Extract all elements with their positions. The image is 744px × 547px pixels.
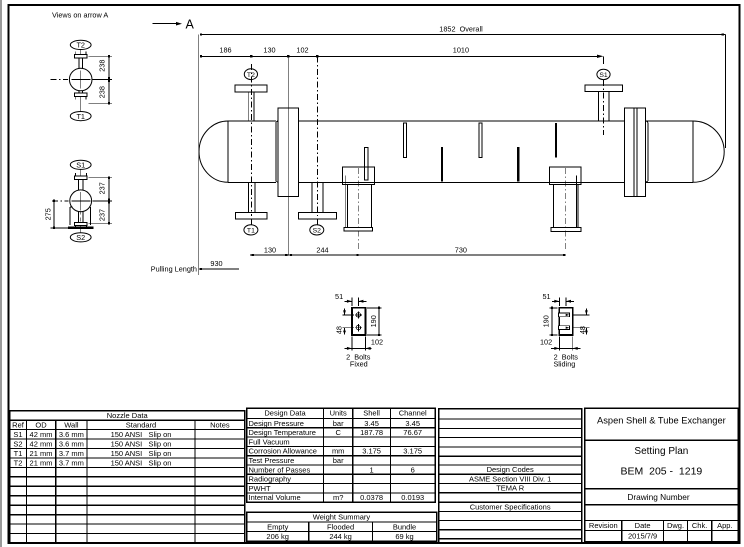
table: Nozzle Data (10, 411, 245, 543)
svg-text:T2: T2 (14, 458, 23, 467)
svg-text:S2: S2 (76, 233, 85, 242)
end view S: horizontal centerline (52, 200, 69, 202)
end view T: T2 flange (75, 50, 87, 58)
svg-text:Full Vacuum: Full Vacuum (249, 437, 290, 446)
svg-text:150 ANSI Slip on: 150 ANSI Slip on (111, 458, 172, 467)
extension line right (overall) (724, 35, 726, 149)
svg-text:Test Pressure: Test Pressure (249, 456, 295, 465)
svg-text:244: 244 (316, 245, 328, 254)
svg-text:190: 190 (541, 315, 550, 327)
saddle right (549, 167, 581, 231)
end view T: center cross (72, 79, 91, 81)
svg-text:Units: Units (330, 408, 347, 417)
svg-text:48: 48 (578, 326, 587, 334)
svg-text:150 ANSI Slip on: 150 ANSI Slip on (111, 449, 172, 458)
svg-text:730: 730 (455, 245, 467, 254)
svg-text:3.175: 3.175 (403, 447, 422, 456)
svg-text:237: 237 (97, 209, 106, 221)
svg-text:51: 51 (335, 292, 343, 301)
nozzle T1 (235, 182, 267, 225)
svg-text:Corrosion Allowance: Corrosion Allowance (249, 447, 317, 456)
nozzle S1 (585, 85, 622, 121)
dimension chain 186 / 130 / 102 / 1010 (200, 45, 604, 58)
nozzle S1 centerline (603, 56, 605, 64)
end view S: dimension 275 (44, 200, 68, 229)
end view S: S2 flange (74, 223, 87, 228)
sliding dim 51 (542, 292, 573, 306)
svg-text:130: 130 (264, 245, 276, 254)
svg-text:1: 1 (370, 465, 374, 474)
nozzle S1 label (597, 69, 610, 79)
left head (199, 121, 228, 182)
view arrow A (153, 18, 195, 32)
sliding dim 190 (541, 307, 557, 336)
svg-text:0.0193: 0.0193 (401, 493, 424, 502)
svg-text:Number of Passes: Number of Passes (249, 465, 311, 474)
svg-text:238: 238 (97, 86, 106, 98)
svg-text:Weight Summary: Weight Summary (313, 513, 371, 522)
svg-text:Design Codes: Design Codes (487, 465, 534, 474)
baffle 6 (top, solid) (555, 123, 557, 158)
title block (585, 408, 738, 541)
svg-text:Channel: Channel (399, 408, 427, 417)
svg-text:150 ANSI Slip on: 150 ANSI Slip on (111, 439, 172, 448)
left screen-edge gray strip (0, 0, 2, 547)
svg-text:Empty: Empty (267, 522, 289, 531)
end view T: label T2 (70, 40, 91, 49)
svg-text:3.7 mm: 3.7 mm (59, 449, 84, 458)
svg-text:Bundle: Bundle (393, 522, 416, 531)
svg-text:Design Temperature: Design Temperature (249, 428, 316, 437)
shell bottom line (228, 181, 276, 183)
svg-text:102: 102 (540, 337, 552, 346)
svg-text:S2: S2 (13, 439, 22, 448)
sliding dim 102 (540, 337, 580, 351)
end view S: stem to S2 label (80, 226, 82, 233)
svg-text:Notes: Notes (210, 420, 230, 429)
dimension 930 pulling length (151, 259, 239, 273)
end view T: T1 flange (75, 93, 87, 111)
girth flange left (276, 108, 299, 197)
svg-text:21 mm: 21 mm (30, 449, 53, 458)
svg-text:S1: S1 (599, 72, 608, 79)
end view T: label T1 (70, 112, 91, 121)
extension line at girth flange (287, 56, 289, 255)
svg-text:Chk.: Chk. (692, 521, 707, 530)
girth flange right (624, 108, 648, 197)
end view S: saddle support (70, 207, 91, 225)
nozzle T2 (235, 85, 267, 121)
svg-text:PWHT: PWHT (249, 484, 271, 493)
dimension 1852 Overall (200, 24, 726, 35)
svg-text:TEMA R: TEMA R (496, 484, 525, 493)
svg-text:A: A (186, 18, 195, 32)
baffle 1 (hollow, at left saddle) (365, 148, 368, 180)
svg-text:Sliding: Sliding (553, 360, 575, 369)
svg-text:Fixed: Fixed (350, 360, 368, 369)
svg-text:Ref: Ref (12, 420, 25, 429)
svg-text:S1: S1 (13, 430, 22, 439)
baffle 3 (bottom, solid) (441, 147, 443, 182)
end view S: label S2 (70, 233, 91, 242)
svg-text:42 mm: 42 mm (30, 439, 53, 448)
svg-text:3.7 mm: 3.7 mm (59, 458, 84, 467)
svg-text:Standard: Standard (126, 420, 156, 429)
svg-text:1852 Overall: 1852 Overall (439, 24, 483, 33)
svg-text:bar: bar (333, 419, 344, 428)
nozzle T1 label (244, 225, 258, 235)
nozzle S2 centerline (316, 56, 318, 216)
notes column (design codes / customer specifications) (439, 409, 582, 543)
right head (693, 121, 724, 182)
svg-text:275: 275 (44, 208, 53, 220)
svg-text:T2: T2 (76, 41, 85, 50)
end view T: dimension 238/238 (89, 55, 113, 104)
svg-text:T1: T1 (76, 112, 85, 121)
svg-text:m?: m? (333, 493, 343, 502)
svg-text:T1: T1 (247, 228, 255, 235)
svg-text:C: C (335, 428, 341, 437)
end view S: label S1 (70, 160, 91, 169)
svg-text:48: 48 (335, 326, 344, 334)
svg-text:130: 130 (263, 45, 275, 54)
dimension chain 130 / 244 / 730 (bottom) (250, 245, 566, 256)
svg-text:238: 238 (97, 60, 106, 72)
svg-text:21 mm: 21 mm (30, 458, 53, 467)
baseplate detail: fixed (352, 308, 366, 335)
svg-text:186: 186 (219, 45, 231, 54)
svg-text:3.6 mm: 3.6 mm (59, 430, 84, 439)
svg-text:3.6 mm: 3.6 mm (59, 439, 84, 448)
svg-text:Drawing Number: Drawing Number (627, 492, 689, 502)
svg-text:Date: Date (635, 521, 651, 530)
svg-text:bar: bar (333, 456, 344, 465)
svg-text:0.0378: 0.0378 (360, 493, 383, 502)
svg-text:930: 930 (210, 259, 222, 268)
svg-text:Customer Specifications: Customer Specifications (470, 502, 551, 511)
nozzle T2/T1 centerline (250, 64, 252, 216)
svg-text:Setting Plan: Setting Plan (634, 446, 688, 457)
nozzle S2 (299, 182, 337, 225)
svg-text:T1: T1 (14, 449, 23, 458)
svg-text:Views on arrow A: Views on arrow A (52, 10, 108, 19)
table: Weight Summary (247, 512, 437, 541)
svg-text:mm: mm (332, 447, 345, 456)
svg-text:Design Pressure: Design Pressure (249, 419, 304, 428)
svg-text:Shell: Shell (363, 408, 380, 417)
fixed dim 48 (335, 309, 354, 335)
fixed dim 190 (367, 307, 382, 336)
baffle 5 (bottom, solid) (517, 147, 519, 182)
end view S: center cross (72, 200, 91, 202)
svg-text:OD: OD (35, 420, 47, 429)
svg-text:237: 237 (97, 182, 106, 194)
baseplate detail: sliding (559, 308, 572, 335)
end view S: S1 flange (74, 169, 87, 179)
svg-text:102: 102 (371, 337, 383, 346)
svg-text:3.45: 3.45 (405, 419, 420, 428)
svg-text:3.175: 3.175 (362, 447, 381, 456)
svg-text:150 ANSI Slip on: 150 ANSI Slip on (111, 430, 172, 439)
svg-text:S2: S2 (313, 228, 322, 235)
svg-text:App.: App. (717, 521, 732, 530)
svg-text:Wall: Wall (64, 420, 79, 429)
svg-text:Aspen Shell & Tube Exchanger: Aspen Shell & Tube Exchanger (597, 415, 726, 425)
svg-text:Pulling Length: Pulling Length (151, 264, 197, 273)
svg-text:Revision: Revision (589, 521, 618, 530)
svg-text:2015/7/9: 2015/7/9 (628, 531, 657, 540)
end view S: S1 neck (78, 179, 80, 190)
nozzle T2 label (244, 69, 257, 80)
end view T: T2 neck (78, 58, 80, 69)
end view S: shell circle (70, 190, 92, 212)
svg-text:Internal Volume: Internal Volume (249, 493, 301, 502)
svg-text:102: 102 (296, 45, 308, 54)
extension line left (overall) (198, 35, 200, 276)
sliding dim 48 (573, 309, 590, 335)
saddle left (343, 167, 375, 231)
svg-text:51: 51 (542, 292, 550, 301)
svg-text:190: 190 (369, 315, 378, 327)
end view S: saddle base plate (68, 227, 94, 229)
svg-text:ASME Section VIII Div. 1: ASME Section VIII Div. 1 (469, 475, 551, 484)
svg-text:Nozzle Data: Nozzle Data (107, 411, 149, 420)
end view S: dimension 237/237 (89, 177, 113, 225)
fixed dim 51 (335, 292, 366, 306)
baffle 4 (top, hollow) (479, 123, 482, 158)
nozzle S2 label (310, 225, 324, 235)
svg-text:6: 6 (411, 465, 415, 474)
svg-text:42 mm: 42 mm (30, 430, 53, 439)
svg-text:187.78: 187.78 (360, 428, 383, 437)
end view T: shell circle (69, 68, 92, 91)
svg-text:Dwg.: Dwg. (667, 521, 684, 530)
svg-text:76.67: 76.67 (403, 428, 422, 437)
svg-text:3.45: 3.45 (364, 419, 379, 428)
svg-text:S1: S1 (76, 161, 85, 170)
saddle right centerline (564, 168, 566, 252)
end view T: T1 neck (78, 91, 80, 94)
svg-text:Design Data: Design Data (264, 408, 306, 417)
saddle left centerline (357, 168, 359, 252)
baffle 2 (top, hollow) (403, 123, 406, 158)
table: Design Data (247, 408, 435, 502)
svg-text:Flooded: Flooded (327, 522, 354, 531)
svg-text:244 kg: 244 kg (329, 532, 352, 541)
end view S: S2 neck through saddle (78, 212, 80, 223)
svg-text:206 kg: 206 kg (266, 532, 289, 541)
fixed dim 102 (344, 337, 383, 351)
fixed bolts (355, 311, 362, 331)
end view T: horizontal centerline (51, 79, 69, 81)
svg-text:69 kg: 69 kg (395, 532, 413, 541)
svg-text:1010: 1010 (453, 45, 469, 54)
sliding slots (558, 313, 569, 330)
svg-text:Radiography: Radiography (249, 475, 292, 484)
shell top line (228, 120, 276, 122)
svg-text:BEM 205 - 1219: BEM 205 - 1219 (621, 466, 703, 478)
